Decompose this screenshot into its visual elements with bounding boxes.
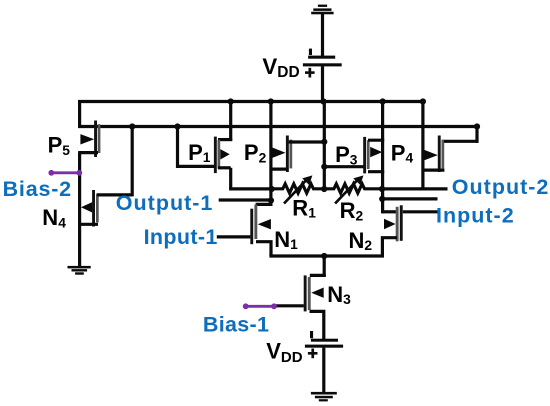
transistor P1 xyxy=(214,137,230,174)
wire N4 source lead xyxy=(78,223,98,226)
wire N1 source lead xyxy=(256,242,271,256)
wire Input-1 xyxy=(217,235,251,238)
wire P1 gate L xyxy=(178,127,215,167)
resistor R1 (variable) xyxy=(272,184,325,193)
junction rail / P2 column xyxy=(268,98,274,104)
ground (left, under N4) xyxy=(68,266,91,275)
wire P1 drain lead xyxy=(218,166,231,169)
wire PMOS source rail (second rail) xyxy=(78,125,477,128)
transistor N3 xyxy=(304,275,324,311)
transistor P4 xyxy=(424,136,444,173)
wire VDD rail (top) xyxy=(78,100,424,103)
svg-text:Bias-1: Bias-1 xyxy=(203,313,269,337)
wire N3 drain lead xyxy=(310,274,326,277)
junction Output-2 xyxy=(379,196,385,202)
junction P3 gate / middle column xyxy=(321,164,327,170)
wire P2 drain lead xyxy=(271,168,289,171)
wire Output-1 xyxy=(219,198,271,201)
wire P3 source lead xyxy=(368,139,384,142)
wire N2 source lead xyxy=(382,238,397,256)
junction middle resistor node xyxy=(321,186,327,192)
wire P5 drain / N4 gate column xyxy=(78,153,81,267)
wire N3 source lead xyxy=(310,311,324,339)
ground (bottom) xyxy=(311,392,337,402)
junction rail / P4 column xyxy=(420,98,426,104)
wire P3/N2 column xyxy=(381,102,384,214)
wire battery to ground (bottom) xyxy=(322,348,325,393)
junction second rail / P1 gate xyxy=(174,123,180,129)
wire Input-2 xyxy=(403,210,438,213)
wire rail left drop xyxy=(78,100,81,128)
svg-text:Output-2: Output-2 xyxy=(452,175,550,199)
arrow of R2 xyxy=(335,175,363,203)
wire P1 source lead xyxy=(218,138,232,141)
transistor P2 xyxy=(272,136,292,173)
wire N2 drain lead xyxy=(382,210,396,213)
wire N1 drain lead xyxy=(256,203,273,206)
junction output-1 resistor node xyxy=(269,186,275,192)
wire N4 drain lead xyxy=(97,193,132,196)
junction second rail / N4 drain xyxy=(129,123,135,129)
wire P3 gate lead xyxy=(324,165,363,168)
wire P2 column (rail to N1 drain) xyxy=(269,102,272,206)
wire P1 source column xyxy=(229,102,232,142)
wire middle column (rail to resistor node) xyxy=(323,102,326,190)
svg-text:Input-2: Input-2 xyxy=(436,204,515,228)
wire output-2 node to label xyxy=(382,187,448,190)
svg-text:Bias-2: Bias-2 xyxy=(3,177,72,201)
wire tail line xyxy=(269,254,384,257)
transistor N2 xyxy=(384,205,403,241)
junction rail / battery and middle column xyxy=(320,98,326,104)
transistor N4 xyxy=(81,190,99,227)
wire N4 drain to second rail xyxy=(131,125,134,196)
transistor P3 xyxy=(363,137,382,174)
wire battery to VDD rail xyxy=(321,66,324,103)
ground (top, inverted) xyxy=(311,5,333,15)
wire P3 drain lead xyxy=(368,170,384,173)
wire top ground to battery xyxy=(321,14,324,57)
transistor N1 xyxy=(250,205,271,245)
wire P4 source drop from second rail xyxy=(475,127,478,143)
resistor R2 (variable) xyxy=(324,184,382,193)
wire P5 drain lead xyxy=(78,151,98,154)
wire P1 drain drop xyxy=(229,168,232,189)
bias-2 purple wire xyxy=(48,170,82,176)
wire P4 source lead xyxy=(444,140,479,143)
wire P4 drain lead xyxy=(423,169,445,172)
arrow of R1 xyxy=(284,175,312,203)
wire tail to N3 drain xyxy=(323,256,326,277)
junction tail node xyxy=(321,253,327,259)
wire Output-2 stub xyxy=(382,197,437,200)
battery VDD (top) xyxy=(303,49,342,78)
bias-1 purple wire xyxy=(243,303,277,309)
junction output-2 resistor node xyxy=(379,186,385,192)
transistor P5 xyxy=(80,121,100,158)
junction rail / P3 source xyxy=(380,98,386,104)
junction Output-1 xyxy=(268,197,274,203)
wire P4 column (rail corner down) xyxy=(421,102,424,191)
wire P1 drain to output node xyxy=(229,187,272,190)
junction second rail / P4 source xyxy=(474,123,480,129)
wire P2 source lead xyxy=(289,140,325,143)
junction rail / P1 source xyxy=(228,98,234,104)
battery VDD (bottom) xyxy=(305,331,343,358)
svg-text:Input-1: Input-1 xyxy=(144,225,218,249)
wire N3 gate lead (black) xyxy=(273,304,304,307)
junction P2 source / middle column xyxy=(321,139,327,145)
svg-text:Output-1: Output-1 xyxy=(116,191,214,215)
